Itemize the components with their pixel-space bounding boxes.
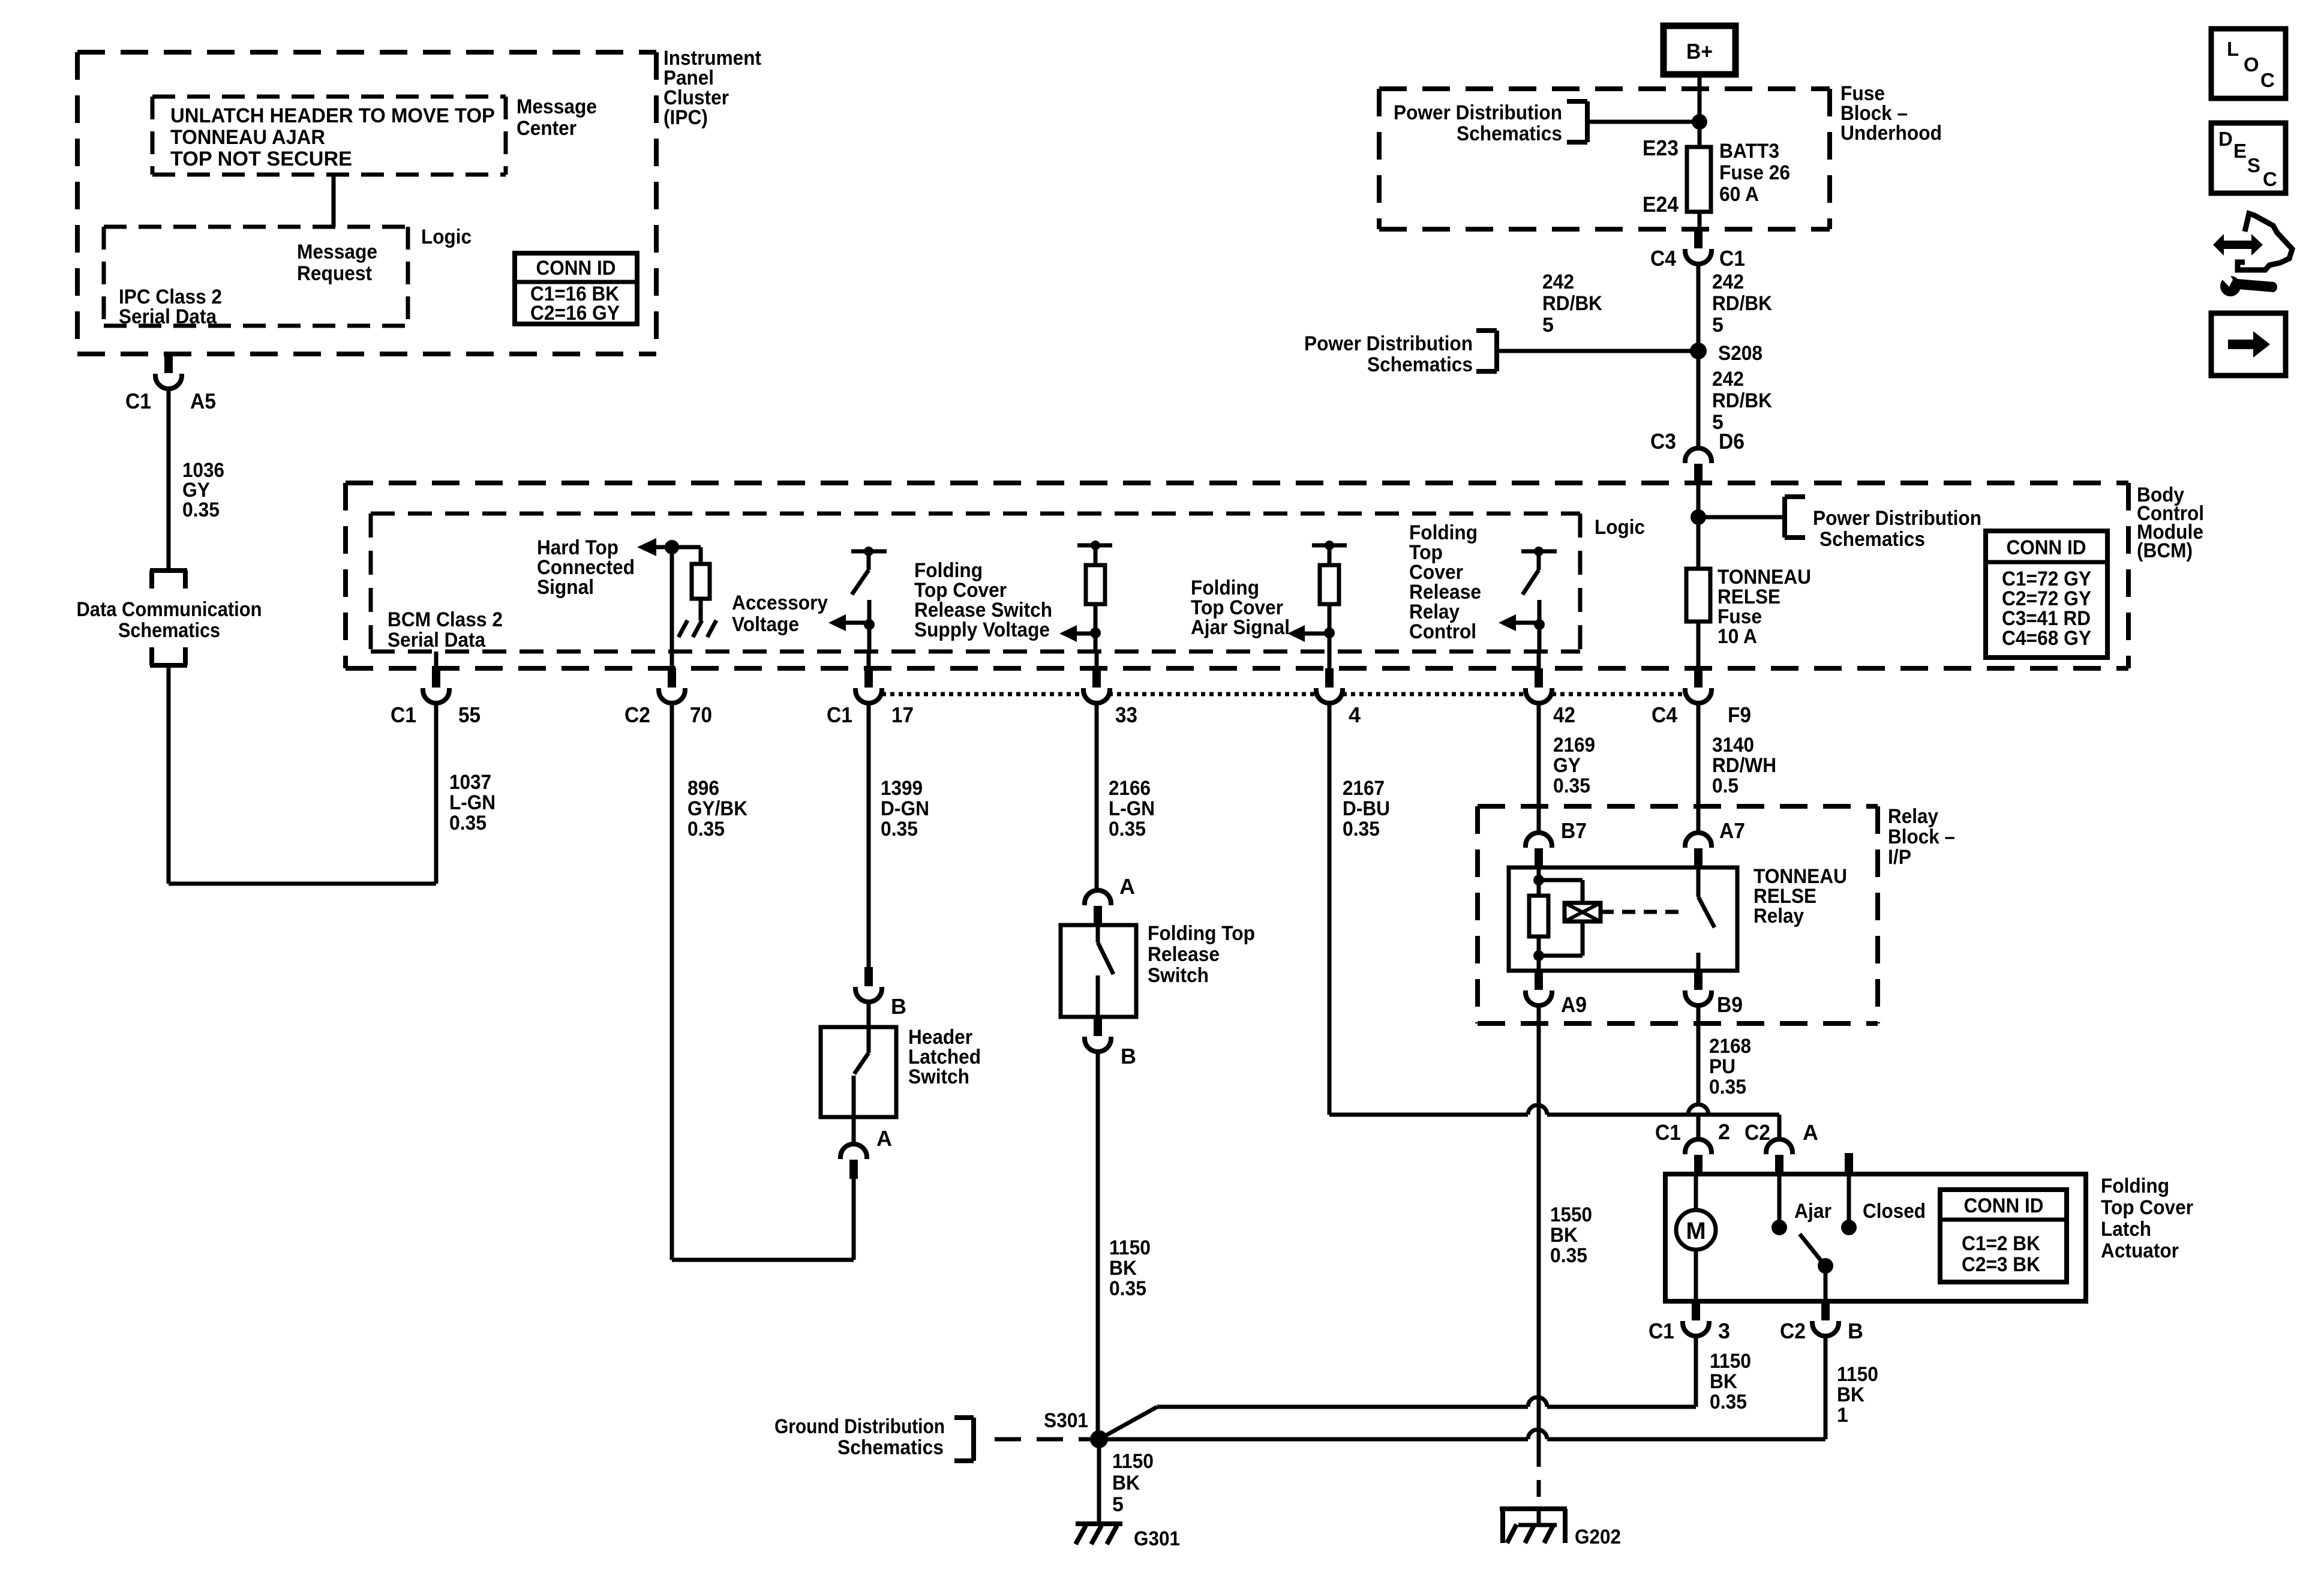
svg-text:0.35: 0.35 <box>1343 818 1380 840</box>
svg-text:CONN ID: CONN ID <box>2007 536 2086 559</box>
svg-text:C1: C1 <box>827 703 852 727</box>
svg-text:UNLATCH HEADER TO MOVE TOP: UNLATCH HEADER TO MOVE TOP <box>170 104 495 127</box>
svg-text:TOP NOT SECURE: TOP NOT SECURE <box>170 148 352 170</box>
svg-text:A: A <box>1119 874 1135 899</box>
svg-text:Top Cover: Top Cover <box>2101 1196 2193 1219</box>
svg-text:Actuator: Actuator <box>2101 1239 2179 1262</box>
svg-text:GY/BK: GY/BK <box>687 797 747 820</box>
svg-text:5: 5 <box>1712 314 1724 337</box>
svg-text:E24: E24 <box>1643 192 1679 217</box>
svg-text:0.35: 0.35 <box>881 818 918 840</box>
svg-text:C1: C1 <box>1655 1120 1681 1145</box>
svg-text:Schematics: Schematics <box>1819 528 1925 551</box>
svg-text:Closed: Closed <box>1863 1200 1926 1223</box>
svg-text:242: 242 <box>1542 271 1574 293</box>
svg-text:O: O <box>2244 53 2259 76</box>
svg-text:Release: Release <box>1148 943 1220 966</box>
svg-text:Power Distribution: Power Distribution <box>1304 332 1473 355</box>
svg-text:(BCM): (BCM) <box>2137 539 2193 562</box>
svg-text:1399: 1399 <box>881 777 923 800</box>
svg-text:Logic: Logic <box>421 226 472 248</box>
svg-text:Switch: Switch <box>1148 964 1209 987</box>
svg-text:Data Communication: Data Communication <box>77 598 262 621</box>
svg-text:2168: 2168 <box>1709 1035 1751 1058</box>
svg-text:PU: PU <box>1709 1055 1736 1078</box>
svg-text:Folding: Folding <box>2101 1175 2169 1197</box>
svg-text:Serial Data: Serial Data <box>119 305 217 328</box>
svg-text:Relay: Relay <box>1888 805 1938 828</box>
svg-text:B+: B+ <box>1686 39 1713 64</box>
svg-text:BCM Class 2: BCM Class 2 <box>388 608 503 631</box>
svg-text:D6: D6 <box>1719 429 1744 454</box>
svg-text:Signal: Signal <box>537 576 594 599</box>
svg-text:RD/BK: RD/BK <box>1712 389 1772 412</box>
svg-text:BK: BK <box>1837 1383 1864 1406</box>
svg-text:L-GN: L-GN <box>449 791 496 814</box>
svg-text:RD/BK: RD/BK <box>1712 292 1772 315</box>
svg-text:C2: C2 <box>1744 1120 1770 1145</box>
svg-text:Schematics: Schematics <box>837 1436 944 1459</box>
svg-text:0.35: 0.35 <box>1710 1391 1747 1413</box>
svg-text:C4: C4 <box>1652 703 1677 727</box>
svg-text:C1: C1 <box>391 703 416 727</box>
svg-text:Voltage: Voltage <box>732 613 799 636</box>
svg-text:Relay: Relay <box>1753 905 1804 927</box>
svg-text:0.35: 0.35 <box>687 818 725 840</box>
svg-text:S: S <box>2247 154 2260 176</box>
svg-text:C: C <box>2260 69 2275 91</box>
svg-text:10 A: 10 A <box>1718 625 1757 648</box>
svg-text:RD/WH: RD/WH <box>1712 754 1776 777</box>
svg-text:BK: BK <box>1112 1472 1140 1494</box>
svg-text:0.35: 0.35 <box>1550 1244 1587 1267</box>
svg-text:E23: E23 <box>1643 136 1679 160</box>
svg-text:Control: Control <box>1409 620 1476 643</box>
svg-text:GY: GY <box>1553 754 1581 777</box>
svg-text:S208: S208 <box>1718 342 1762 365</box>
svg-text:5: 5 <box>1112 1493 1124 1516</box>
svg-text:Schematics: Schematics <box>1367 353 1473 376</box>
svg-text:C2: C2 <box>1780 1319 1806 1343</box>
svg-text:5: 5 <box>1542 314 1554 337</box>
svg-text:0.35: 0.35 <box>1109 818 1146 840</box>
svg-text:Ajar Signal: Ajar Signal <box>1191 616 1290 639</box>
svg-text:C2=3 BK: C2=3 BK <box>1962 1253 2040 1276</box>
svg-text:G301: G301 <box>1134 1527 1180 1550</box>
svg-text:Message: Message <box>517 95 597 118</box>
svg-text:B: B <box>1848 1319 1863 1343</box>
svg-text:BATT3: BATT3 <box>1719 140 1779 163</box>
svg-text:Ajar: Ajar <box>1794 1200 1831 1223</box>
svg-text:G202: G202 <box>1575 1526 1621 1548</box>
svg-text:2: 2 <box>1718 1119 1730 1144</box>
svg-text:C3: C3 <box>1650 429 1676 454</box>
svg-text:3: 3 <box>1718 1319 1730 1343</box>
svg-text:(IPC): (IPC) <box>663 106 708 129</box>
svg-text:B9: B9 <box>1717 992 1743 1017</box>
svg-text:E: E <box>2233 140 2247 162</box>
svg-text:0.5: 0.5 <box>1712 775 1739 797</box>
svg-text:BK: BK <box>1550 1224 1578 1247</box>
svg-text:RD/BK: RD/BK <box>1542 292 1602 315</box>
svg-text:L-GN: L-GN <box>1109 797 1155 820</box>
svg-text:1550: 1550 <box>1550 1203 1592 1226</box>
svg-text:BK: BK <box>1710 1370 1737 1393</box>
svg-text:C1: C1 <box>1719 246 1745 271</box>
svg-text:1150: 1150 <box>1112 1450 1154 1473</box>
svg-text:Serial Data: Serial Data <box>388 629 486 652</box>
svg-text:70: 70 <box>690 703 712 727</box>
svg-text:Supply Voltage: Supply Voltage <box>914 619 1050 641</box>
svg-text:Logic: Logic <box>1595 516 1645 539</box>
svg-text:Request: Request <box>297 262 372 285</box>
svg-text:60 A: 60 A <box>1719 183 1759 206</box>
svg-text:0.35: 0.35 <box>182 499 220 521</box>
svg-text:B7: B7 <box>1561 818 1587 843</box>
svg-text:0.35: 0.35 <box>1709 1076 1746 1098</box>
svg-text:CONN ID: CONN ID <box>1964 1194 2044 1217</box>
svg-text:TONNEAU AJAR: TONNEAU AJAR <box>170 126 325 149</box>
svg-text:42: 42 <box>1553 703 1575 727</box>
svg-text:0.35: 0.35 <box>449 812 487 834</box>
svg-text:C2=16 GY: C2=16 GY <box>530 302 620 325</box>
svg-text:Folding Top: Folding Top <box>1148 922 1255 945</box>
svg-text:B: B <box>891 994 906 1019</box>
svg-text:Center: Center <box>517 117 577 140</box>
svg-text:1037: 1037 <box>449 771 491 794</box>
svg-text:D-BU: D-BU <box>1343 797 1390 820</box>
svg-text:A9: A9 <box>1561 992 1587 1017</box>
svg-text:S301: S301 <box>1044 1409 1088 1432</box>
svg-text:B: B <box>1121 1044 1136 1068</box>
svg-text:Latch: Latch <box>2101 1218 2151 1241</box>
svg-text:242: 242 <box>1712 368 1744 391</box>
svg-text:C: C <box>2263 168 2277 190</box>
svg-text:33: 33 <box>1115 703 1137 727</box>
svg-text:A5: A5 <box>190 389 216 413</box>
svg-text:Underhood: Underhood <box>1840 122 1942 145</box>
svg-text:Schematics: Schematics <box>1457 122 1562 145</box>
svg-text:C4: C4 <box>1650 246 1676 271</box>
svg-text:896: 896 <box>687 777 719 800</box>
svg-text:2167: 2167 <box>1343 777 1385 800</box>
svg-text:Fuse 26: Fuse 26 <box>1719 161 1790 184</box>
svg-text:1150: 1150 <box>1710 1350 1751 1373</box>
svg-text:CONN ID: CONN ID <box>536 257 616 280</box>
svg-text:Accessory: Accessory <box>732 592 828 614</box>
svg-text:1: 1 <box>1837 1404 1848 1427</box>
svg-text:L: L <box>2227 38 2239 60</box>
svg-text:Power Distribution: Power Distribution <box>1394 101 1562 124</box>
svg-text:1150: 1150 <box>1837 1363 1878 1386</box>
svg-text:C1=2 BK: C1=2 BK <box>1962 1232 2040 1255</box>
svg-text:A7: A7 <box>1719 818 1745 843</box>
svg-text:0.35: 0.35 <box>1109 1277 1146 1300</box>
svg-text:C4=68 GY: C4=68 GY <box>2002 627 2091 650</box>
svg-text:17: 17 <box>891 703 914 727</box>
svg-text:A: A <box>1803 1120 1818 1145</box>
svg-text:0.35: 0.35 <box>1553 775 1590 797</box>
svg-text:C1: C1 <box>125 389 151 413</box>
svg-text:Message: Message <box>297 241 377 263</box>
svg-text:D-GN: D-GN <box>881 797 929 820</box>
svg-text:BK: BK <box>1109 1257 1137 1280</box>
svg-text:Block –: Block – <box>1888 825 1955 848</box>
svg-text:D: D <box>2218 128 2233 150</box>
svg-text:F9: F9 <box>1728 703 1751 727</box>
svg-text:3140: 3140 <box>1712 734 1754 757</box>
svg-text:C2: C2 <box>624 703 650 727</box>
svg-text:Power Distribution: Power Distribution <box>1813 507 1981 530</box>
svg-text:4: 4 <box>1349 703 1361 727</box>
svg-text:Ground Distribution: Ground Distribution <box>774 1415 945 1438</box>
svg-text:Switch: Switch <box>908 1065 969 1088</box>
svg-text:M: M <box>1686 1218 1706 1244</box>
svg-text:A: A <box>876 1126 892 1151</box>
svg-text:Schematics: Schematics <box>118 619 220 642</box>
svg-text:1150: 1150 <box>1109 1236 1151 1259</box>
svg-text:2169: 2169 <box>1553 734 1595 757</box>
svg-text:I/P: I/P <box>1888 846 1911 869</box>
svg-text:242: 242 <box>1712 271 1744 293</box>
svg-text:55: 55 <box>458 703 481 727</box>
svg-text:C1: C1 <box>1649 1319 1674 1343</box>
svg-text:2166: 2166 <box>1109 777 1151 800</box>
